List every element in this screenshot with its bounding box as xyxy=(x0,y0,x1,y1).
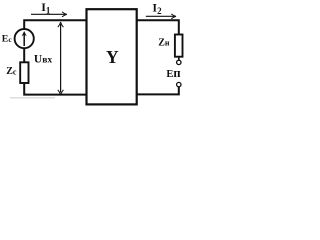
svg-text:Zc: Zc xyxy=(6,66,17,77)
wire bottom-right rail from lower terminal to Y box xyxy=(137,87,179,94)
svg-text:Eп: Eп xyxy=(166,66,180,80)
svg-text:Y: Y xyxy=(106,47,119,67)
load impedance Zн (rectangle) xyxy=(175,35,183,57)
upper output terminal xyxy=(177,60,181,64)
svg-text:Ec: Ec xyxy=(2,34,13,45)
impedance Zc (rectangle) xyxy=(20,62,28,83)
svg-text:Zн: Zн xyxy=(158,37,170,48)
lower output terminal xyxy=(177,82,181,86)
svg-text:Uвх: Uвх xyxy=(34,54,52,66)
voltage source E_c (circle with up arrow) xyxy=(15,29,34,48)
wire from source to Zc xyxy=(23,48,25,62)
current arrow I2 xyxy=(146,14,176,19)
current arrow I1 xyxy=(31,12,67,17)
scan smudge under bottom rail xyxy=(10,97,55,99)
voltage double-headed arrow Uвх xyxy=(58,22,64,95)
wire top-right rail from Y box to Zн xyxy=(137,20,179,34)
wire bottom-left rail from Zc to Y box xyxy=(24,83,86,95)
wire top-left rail from source to Y box xyxy=(24,20,86,29)
wire stub Zн to upper terminal xyxy=(178,57,180,60)
two-port network box Y xyxy=(87,9,137,104)
